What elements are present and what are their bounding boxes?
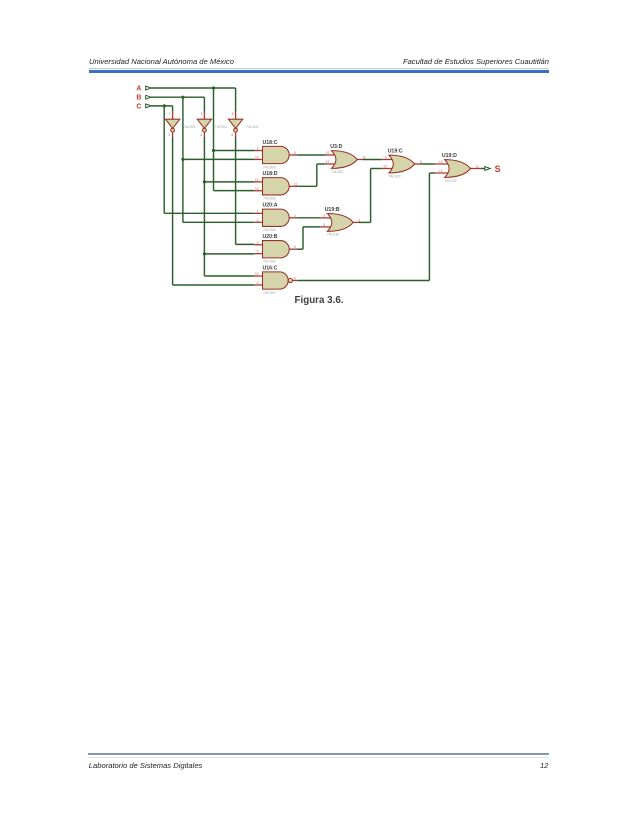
svg-text:12: 12: [439, 160, 443, 164]
wire U16:C out horizontal: [297, 280, 429, 282]
figure caption: [0, 295, 638, 306]
wire into U19:B pin 5: [303, 226, 320, 228]
wire B' to U18:D pin 12: [204, 181, 254, 183]
svg-text:8: 8: [294, 151, 296, 155]
wire U20:B out horizontal: [298, 248, 304, 250]
wire U19:C out to U19:D pin 12: [420, 163, 435, 165]
svg-text:C: C: [136, 103, 141, 110]
wire B into inverter 2: [203, 97, 205, 111]
svg-text:11: 11: [294, 182, 298, 186]
wire U19:D out to terminal S: [481, 168, 485, 170]
svg-text:2: 2: [257, 218, 259, 222]
pin numbers 12,13,11 of U18:D: [255, 178, 298, 191]
pin numbers 12,13,11 of U3:D: [326, 151, 366, 164]
svg-text:74LS04: 74LS04: [246, 125, 258, 129]
wire into U19:D pin 13: [429, 172, 435, 174]
wire U18:D out horizontal: [298, 185, 317, 187]
svg-text:9: 9: [257, 147, 259, 151]
svg-text:5: 5: [323, 223, 325, 227]
wire U18:D out vertical: [316, 164, 318, 186]
wire B to U18:C pin 10: [183, 158, 254, 160]
wire net B' vertical: [203, 137, 205, 276]
svg-text:13: 13: [326, 160, 330, 164]
inverter 1 (74LS04), points down: [165, 112, 179, 137]
header right text: [403, 57, 549, 66]
svg-text:3: 3: [201, 112, 203, 116]
wire C to U20:A pin 1: [164, 212, 254, 214]
junction node B': [203, 252, 206, 255]
input terminal C: [146, 104, 151, 108]
svg-text:4: 4: [200, 133, 202, 137]
pin numbers 1,2 of inverter 1: [168, 112, 170, 137]
svg-text:4: 4: [257, 241, 259, 245]
wire net A vertical: [213, 88, 215, 191]
or-gate U19:D (74LS32): [435, 160, 481, 178]
or-gate U3:D (74LS32): [326, 151, 363, 169]
svg-text:U19:B: U19:B: [325, 207, 340, 213]
and-gate U18:C (74LS08): [254, 146, 297, 163]
wire net C vertical: [163, 106, 165, 213]
pin numbers 5,6 of inverter 3: [231, 112, 233, 137]
svg-text:74LS04: 74LS04: [215, 125, 227, 129]
output terminal S: [485, 167, 490, 171]
pin numbers 3,4 of inverter 2: [200, 112, 202, 137]
svg-text:2: 2: [168, 133, 170, 137]
svg-text:S: S: [495, 164, 501, 174]
svg-text:U20:B: U20:B: [263, 234, 278, 240]
nand-gate U16:C (74LS00): [254, 272, 297, 289]
svg-text:4: 4: [323, 214, 325, 218]
wire U20:A out to U19:B pin 4: [298, 217, 320, 219]
svg-text:74LS32: 74LS32: [331, 170, 343, 174]
svg-text:12: 12: [255, 178, 259, 182]
svg-text:11: 11: [363, 156, 367, 160]
wire U3:D out to U19:C pin 9: [363, 159, 381, 161]
wire B to U20:A pin 2: [183, 221, 254, 223]
svg-text:U20:A: U20:A: [263, 203, 278, 209]
svg-text:6: 6: [231, 133, 233, 137]
svg-text:A: A: [136, 86, 141, 93]
pin numbers 4,5,6 of U20:B: [257, 241, 296, 254]
wire A into inverter 3: [235, 88, 237, 112]
inverter 2 (74LS04), points down: [197, 112, 211, 137]
wire into U3:D pin 13: [317, 163, 326, 165]
svg-text:74LS08: 74LS08: [263, 259, 275, 263]
svg-text:11: 11: [476, 165, 480, 169]
svg-text:10: 10: [255, 155, 259, 159]
and-gate U18:D (74LS08): [254, 178, 297, 195]
junction node C: [163, 104, 166, 107]
wire A' to U20:B pin 4: [236, 243, 255, 245]
inverter 3 (74LS04), points down: [228, 112, 242, 137]
pin numbers 1,2,3 of U20:A: [257, 209, 296, 222]
input terminal A: [146, 86, 151, 90]
wire B' to U16:C pin 10: [204, 275, 254, 277]
svg-text:9: 9: [257, 281, 259, 285]
svg-text:74LS00: 74LS00: [263, 291, 275, 295]
svg-text:5: 5: [232, 112, 234, 116]
svg-text:74LS08: 74LS08: [263, 228, 275, 232]
wire net B vertical: [182, 97, 184, 222]
pin numbers 9,10,8 of U19:C: [383, 156, 422, 169]
wire C' to U16:C pin 9: [173, 284, 255, 286]
svg-text:6: 6: [294, 245, 296, 249]
svg-text:U19:D: U19:D: [442, 153, 457, 159]
header rule thick blue: [89, 70, 550, 72]
wire C into inverter 1: [172, 106, 174, 112]
svg-text:B: B: [136, 95, 141, 102]
wire U19:B out horizontal: [359, 221, 371, 223]
pin numbers 10,9,8 of U16:C: [255, 272, 296, 285]
svg-text:U19:C: U19:C: [388, 149, 403, 155]
and-gate U20:B (74LS08): [254, 241, 297, 258]
junction node B: [181, 158, 184, 161]
footer rule: [88, 753, 549, 755]
svg-text:5: 5: [257, 250, 259, 254]
svg-text:12: 12: [326, 151, 330, 155]
svg-text:74LS32: 74LS32: [388, 174, 400, 178]
pin numbers 4,5,6 of U19:B: [323, 214, 360, 227]
wire U19:B out vertical: [370, 169, 372, 223]
junction node B': [203, 180, 206, 183]
wire net B from terminal: [151, 96, 204, 98]
svg-text:1: 1: [257, 209, 259, 213]
svg-text:10: 10: [255, 272, 259, 276]
footer rule light: [88, 756, 549, 759]
or-gate U19:C (74LS32): [381, 155, 420, 173]
svg-text:6: 6: [358, 218, 360, 222]
svg-text:8: 8: [420, 160, 422, 164]
svg-text:10: 10: [383, 165, 387, 169]
input terminal B: [146, 95, 151, 99]
pin numbers 12,13,11 of U19:D: [439, 160, 479, 173]
pin numbers 9,10,8 of U18:C: [255, 147, 296, 160]
wire net C from terminal: [151, 105, 173, 107]
wire U16:C out vertical: [428, 173, 430, 281]
svg-text:9: 9: [385, 156, 387, 160]
header left text: [89, 57, 234, 66]
wire U18:C out to U3:D pin 12: [298, 154, 326, 156]
svg-text:3: 3: [294, 214, 296, 218]
svg-text:8: 8: [294, 277, 296, 281]
header rule thin light: [89, 68, 550, 69]
svg-text:13: 13: [255, 187, 259, 191]
svg-text:74LS04: 74LS04: [183, 125, 195, 129]
junction node B: [181, 96, 184, 99]
and-gate U20:A (74LS08): [254, 209, 297, 226]
footer left text: [89, 761, 203, 770]
footer page number: [540, 761, 548, 770]
junction node A: [212, 86, 215, 89]
svg-text:1: 1: [169, 112, 171, 116]
or-gate U19:B (74LS32): [320, 214, 359, 232]
wire net C' vertical: [172, 137, 174, 285]
svg-text:74LS32: 74LS32: [444, 179, 456, 183]
wire A to U18:C pin 9: [214, 150, 255, 152]
svg-text:U18:D: U18:D: [263, 171, 278, 177]
svg-text:74LS08: 74LS08: [263, 197, 275, 201]
svg-text:U16:C: U16:C: [263, 265, 278, 271]
svg-text:74LS32: 74LS32: [327, 233, 339, 237]
wire U20:B out vertical: [302, 227, 304, 249]
wire net A from terminal: [151, 87, 236, 89]
wire B' to U20:B pin 5: [204, 253, 254, 255]
junction node A: [212, 149, 215, 152]
svg-text:U3:D: U3:D: [330, 144, 342, 150]
wire net A' vertical: [235, 137, 237, 245]
wire A to U18:D pin 13: [214, 190, 255, 192]
wire into U19:C pin 10: [371, 168, 382, 170]
svg-text:74LS08: 74LS08: [263, 165, 275, 169]
svg-text:13: 13: [439, 169, 443, 173]
svg-text:U18:C: U18:C: [263, 140, 278, 146]
